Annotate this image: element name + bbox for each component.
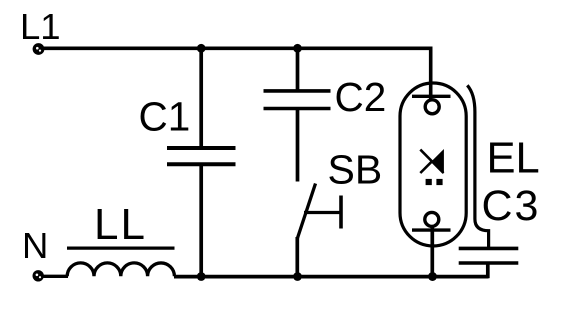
wire C1 top lead <box>199 48 203 147</box>
node junction bottom lamp <box>428 272 437 281</box>
switch SB actuator head <box>339 196 343 229</box>
capacitor C3 <box>459 248 519 263</box>
terminal L1 <box>33 43 45 55</box>
lamp EL bottom electrode circle <box>425 212 439 226</box>
lamp EL envelope <box>400 83 466 246</box>
terminal N <box>33 270 44 281</box>
wire C2 top lead <box>296 48 300 90</box>
svg-text:C2: C2 <box>335 74 387 120</box>
lamp EL gas dot right <box>436 179 442 185</box>
svg-text:LL: LL <box>94 200 147 249</box>
lamp EL gas dot left <box>426 179 432 185</box>
capacitor C1 <box>167 148 236 164</box>
svg-text:N: N <box>22 225 48 266</box>
svg-text:EL: EL <box>487 135 540 183</box>
lamp EL top electrode bar <box>412 95 451 98</box>
wire bottom rail <box>174 275 489 279</box>
inductor LL core bar <box>67 247 175 250</box>
capacitor C2 <box>264 91 331 109</box>
wire lamp bottom lead <box>430 227 434 278</box>
wire switch bottom lead <box>295 237 299 277</box>
wire lamp to C3 curve <box>467 85 488 247</box>
wire C3 bottom lead <box>486 264 490 278</box>
wire top rail <box>44 48 431 99</box>
node junction bottom SB <box>293 272 302 281</box>
switch SB actuator rod <box>304 211 340 214</box>
lamp EL bottom electrode bar <box>412 228 451 231</box>
inductor LL winding <box>67 263 174 276</box>
lamp EL top electrode circle <box>425 100 439 114</box>
svg-text:C3: C3 <box>482 182 541 230</box>
lamp EL discharge symbol <box>420 149 444 174</box>
node junction bottom C1 <box>197 272 206 281</box>
wire N to inductor <box>43 275 68 278</box>
wire C2 to switch <box>296 110 300 182</box>
node junction top C1 <box>197 44 206 53</box>
svg-text:C1: C1 <box>139 94 191 140</box>
svg-text:L1: L1 <box>20 6 61 47</box>
wire C1 bottom lead <box>199 166 203 278</box>
switch SB lever <box>297 184 316 240</box>
svg-text:SB: SB <box>328 147 383 193</box>
node junction top C2 <box>293 44 302 53</box>
